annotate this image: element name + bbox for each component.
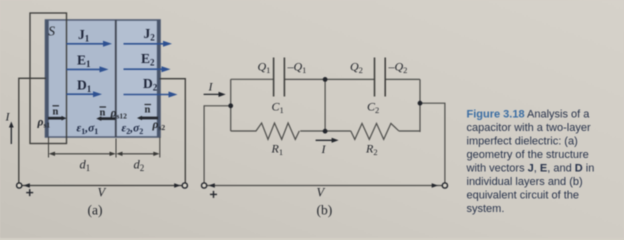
node dot right xyxy=(418,101,423,106)
vector arrow E1 xyxy=(67,66,109,72)
unit normal n (right, pointing left) xyxy=(137,105,158,121)
vector arrow J2 xyxy=(124,41,173,47)
plus sign (a) xyxy=(26,189,33,196)
wire C2 to right rail xyxy=(385,78,420,80)
wire R1 to middle node xyxy=(300,130,325,132)
capacitor C2 plates xyxy=(375,58,386,97)
interface between layer 1 and layer 2 xyxy=(115,20,117,137)
current I arrow (left, pointing up) xyxy=(5,110,14,145)
right terminal (a) xyxy=(182,183,187,188)
unit normal n12 (interface, pointing left) xyxy=(96,107,115,121)
svg-text:capacitor with a two-layer: capacitor with a two-layer xyxy=(467,122,591,134)
svg-text:S: S xyxy=(48,24,55,39)
left terminal (b) xyxy=(202,183,207,188)
dimension extension ticks xyxy=(48,137,50,158)
right terminal (b) xyxy=(442,183,447,188)
wire top branch to C1 xyxy=(231,78,274,80)
bottom voltage line (a) xyxy=(22,185,182,187)
wire middle rail xyxy=(324,79,326,131)
wire R2 to right rail xyxy=(399,130,420,132)
wire right node stub xyxy=(420,103,445,183)
dimension arrow d1 xyxy=(49,152,116,173)
wire left plate to left terminal xyxy=(19,78,46,183)
node dot left xyxy=(228,103,233,108)
svg-text:imperfect dielectric: (a): imperfect dielectric: (a) xyxy=(467,136,578,148)
unit normal n (left, pointing right) xyxy=(48,106,67,121)
node dot bottom middle xyxy=(323,129,328,134)
current arrowhead toward right terminal (b) xyxy=(432,183,438,188)
resistor R1 zigzag xyxy=(256,123,299,139)
current arrowhead toward left terminal xyxy=(24,183,30,188)
svg-text:geometry of the structure: geometry of the structure xyxy=(467,149,589,161)
svg-text:n: n xyxy=(53,107,59,118)
wire middle node to C2 xyxy=(325,78,374,80)
middle current I arrow (b) xyxy=(316,138,339,156)
wire middle node to R2 xyxy=(325,130,351,132)
bottom voltage line (b) xyxy=(207,185,442,187)
current arrowhead toward right terminal xyxy=(174,183,180,188)
dimension arrow d2 xyxy=(116,152,159,173)
left plate (thick edge) xyxy=(46,20,49,137)
svg-text:(a): (a) xyxy=(88,203,103,218)
left terminal (a) xyxy=(17,183,22,188)
wire left rail xyxy=(230,79,232,131)
wire right plate to right terminal xyxy=(160,79,186,183)
vector arrow E2 xyxy=(124,66,171,72)
right plate (thick edge) xyxy=(157,20,160,137)
plus sign (b) xyxy=(210,191,217,198)
wire left terminal stub xyxy=(204,106,231,183)
svg-text:(b): (b) xyxy=(317,203,333,218)
resistor R2 zigzag xyxy=(351,123,399,139)
current arrowhead toward left terminal (b) xyxy=(209,183,215,188)
svg-text:n: n xyxy=(145,105,151,116)
capacitor C1 plates xyxy=(274,58,285,97)
svg-text:n: n xyxy=(100,108,106,119)
vector arrow D2 xyxy=(124,92,178,98)
wire right rail xyxy=(419,79,421,132)
svg-text:system.: system. xyxy=(467,203,505,215)
vector arrow D1 xyxy=(67,91,103,97)
closed surface S rectangle xyxy=(30,13,67,144)
svg-text:with vectors J, E, and D in: with vectors J, E, and D in xyxy=(466,163,595,175)
svg-text:equivalent circuit of the: equivalent circuit of the xyxy=(467,190,580,202)
vector arrow J1 xyxy=(67,41,113,47)
dielectric block (two-layer, shaded) xyxy=(46,20,161,137)
wire C1 to middle node xyxy=(284,78,325,80)
svg-text:Figure 3.18 Analysis of a: Figure 3.18 Analysis of a xyxy=(467,109,591,121)
node dot top middle xyxy=(323,77,328,82)
wire bottom branch to R1 xyxy=(231,130,257,132)
current I arrow into circuit (b) xyxy=(204,80,226,98)
svg-text:individual layers and (b): individual layers and (b) xyxy=(467,176,583,188)
